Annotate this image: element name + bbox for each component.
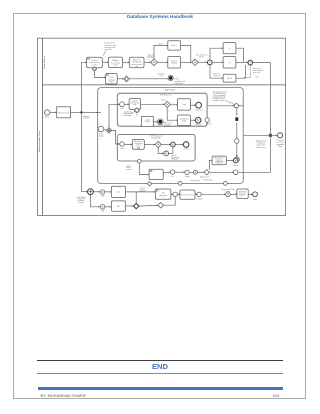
wire: gateway A down to box C2 [167, 108, 177, 120]
interior row circle X [194, 170, 198, 174]
bottom split label [77, 197, 86, 204]
junction X on channel [269, 134, 272, 137]
wire: junction down channel left [82, 114, 88, 192]
wire: subprocess entry continues [98, 111, 101, 113]
wire: box B2 to terminate A [153, 121, 157, 123]
svg-text:sent: sent [256, 75, 260, 78]
svg-text:Copy DB and: Copy DB and [77, 197, 86, 199]
svg-text:The sub-process are: The sub-process are [213, 90, 227, 93]
gateway G2 [192, 59, 198, 65]
wire: send task to diamond event [117, 78, 123, 80]
END text [0, 362, 320, 371]
svg-text:sent: sent [159, 75, 163, 78]
task X2 [111, 201, 125, 211]
wire: circle s1 to task X1 [105, 191, 111, 193]
svg-text:after go live: after go live [191, 179, 200, 182]
svg-text:Item 1: Item 1 [172, 44, 177, 47]
gateway G4 circle event [248, 60, 253, 65]
wire: subprocess right to end event right [243, 134, 277, 136]
pool outer rectangle [38, 38, 286, 215]
annotation text block right [213, 90, 227, 102]
loop label [171, 154, 180, 160]
wire: box C2 to end A2 [191, 119, 196, 121]
send task row2 [106, 74, 118, 85]
box B2 label [145, 119, 151, 123]
wire: plus bold down to circle s2 [90, 195, 100, 207]
end event container B [183, 142, 189, 148]
end event bottom row [253, 192, 258, 197]
wire: receive box to junction [71, 111, 80, 113]
wire: circle2 to circleX [189, 171, 193, 173]
boundary event on container A right edge [205, 118, 209, 122]
svg-text:Review: Review [145, 121, 151, 123]
interior upper event circle [233, 158, 238, 163]
wire: low stacked box up right [236, 65, 246, 78]
gateway G1 [151, 59, 158, 66]
svg-text:Sub Process: Sub Process [165, 89, 175, 91]
svg-text:Database Admin Team: Database Admin Team [38, 131, 41, 152]
wire: plus gateway up to container A [109, 104, 119, 127]
wire: gateway I to doc box [230, 193, 237, 195]
wire: icon box to circle t1 [171, 193, 173, 195]
svg-text:1: 1 [172, 103, 173, 105]
wire: plus gateway right to container B entry [112, 130, 120, 144]
svg-text:handling?: handling? [147, 57, 155, 59]
svg-text:Completed?: Completed? [151, 137, 161, 140]
interior upper box label [215, 157, 225, 165]
task box3 top lane [129, 57, 144, 67]
circle t1 [173, 192, 177, 196]
wire: dark diamond right to diamond H [139, 204, 158, 207]
gateway G3 bold circle [207, 60, 212, 65]
wire: item box2 to G2 [181, 61, 192, 63]
wire: doc box to end [248, 193, 252, 195]
svg-text:ready: ready [99, 136, 104, 138]
box low right stack [223, 74, 236, 82]
wire: right edge events column [236, 108, 238, 115]
wire: G3 up to box top [210, 48, 223, 59]
wire: loop event up to gateway F [169, 147, 173, 153]
box B2 container A [142, 116, 154, 126]
svg-text:2x attempt: 2x attempt [124, 110, 132, 113]
svg-text:ready: ready [226, 191, 231, 193]
svg-text:Sub Process 1: Sub Process 1 [160, 95, 172, 97]
wire: events column 2 [236, 123, 238, 139]
wire: interior bottom row [163, 171, 170, 174]
svg-text:Done: Done [253, 199, 257, 201]
wire: plus bold to circle s1 [93, 191, 100, 193]
wire: boundary B1 dashed [136, 113, 138, 117]
svg-text:retry 2: retry 2 [161, 99, 166, 102]
wire: dark diamond up to row [135, 192, 137, 204]
svg-text:labeled: labeled [171, 63, 177, 65]
wire: G2 to G3 [198, 61, 207, 63]
interior row dark event [171, 170, 174, 173]
box C2 container A [178, 115, 191, 126]
end event right column [234, 157, 239, 162]
end event A2 [195, 117, 201, 123]
svg-text:done: done [278, 146, 282, 148]
wire: start to receive box [50, 111, 57, 113]
bottom circle s2 [100, 205, 105, 210]
interior row gateway [204, 170, 209, 175]
wire: boundary event down to send task [95, 71, 106, 78]
svg-text:DB success: DB success [256, 147, 266, 149]
wire: G4 right then down channel [253, 63, 271, 173]
END rule bottom [37, 373, 283, 374]
interior row end circle [233, 170, 238, 175]
svg-text:switch done: switch done [203, 179, 213, 182]
svg-text:Send: Send [146, 119, 150, 121]
svg-text:1 week: 1 week [233, 165, 239, 167]
plus gateway subprocess [106, 128, 111, 133]
svg-text:Order Process: Order Process [43, 56, 46, 69]
doc box bottom row [237, 189, 248, 199]
terminate event container A [157, 119, 163, 125]
start event bottom lane [45, 110, 50, 115]
svg-text:Fix: Fix [171, 176, 173, 178]
svg-text:Start: Start [45, 116, 49, 119]
task box1 top lane [87, 57, 103, 67]
wire: gateway E loop down [158, 148, 163, 154]
wire: junction into subprocess [83, 111, 97, 113]
wire: boundary B1 dashed label line [131, 111, 135, 113]
wire: box Y to circle t2 [195, 193, 197, 195]
svg-text:Item 3: Item 3 [227, 77, 232, 80]
svg-text:Log: Log [183, 104, 186, 106]
wire: container B boundary down to icon box [139, 163, 149, 174]
wire: G4 dashed down left [244, 65, 251, 78]
task B1 label [130, 101, 139, 106]
svg-text:Verified: Verified [196, 198, 202, 200]
svg-text:2: 2 [169, 110, 170, 112]
svg-text:Final end: Final end [195, 124, 202, 126]
svg-text:send out: send out [213, 74, 220, 77]
start event subprocess [98, 126, 104, 132]
boundary B label [126, 165, 132, 170]
wire: into low stacked box [210, 66, 223, 79]
start event container B [120, 142, 124, 146]
wire: task X2 right to dark diamond [126, 205, 134, 207]
boundary event on box1 [93, 67, 97, 71]
wire: end circle to channel [238, 171, 270, 173]
event right column mid [235, 139, 239, 143]
wire: box C to end A [191, 104, 196, 106]
junction X bottom lane [80, 111, 83, 114]
wire: circle s2 to task X2 [105, 206, 111, 208]
svg-text:end and: end and [164, 124, 170, 126]
terminate event row2 [168, 75, 173, 80]
lane divider [42, 84, 285, 86]
interior row circle 2 [185, 170, 189, 174]
wire: start2 to plus gateway [104, 129, 107, 132]
wire: gateway A to box C [170, 104, 177, 106]
wire: junction up into top lane [82, 62, 87, 112]
receive box bottom lane [57, 107, 71, 118]
footer author [41, 393, 87, 398]
gateway I circle [226, 192, 231, 197]
footer page number [262, 393, 279, 398]
wire: gateway F to end B [175, 144, 183, 146]
svg-text:Item 1: Item 1 [159, 42, 164, 45]
annotation event right [234, 104, 238, 108]
task X1 [111, 186, 125, 197]
wire: box3 to gateway G1 [144, 61, 151, 63]
wire: item box1 right down to G2 [181, 45, 191, 62]
svg-text:2.5 day: 2.5 day [184, 149, 189, 151]
interior upper box [212, 156, 226, 165]
svg-text:1 day: 1 day [101, 196, 105, 198]
wire: gateway E to gateway F [161, 144, 170, 146]
boundary circle subprocess bottom [147, 182, 151, 186]
svg-text:run and: run and [140, 187, 145, 190]
wire: upper box to event circle [226, 159, 233, 161]
interior icon box [149, 169, 163, 179]
box mid right stack [223, 57, 236, 68]
loop event container B [164, 151, 169, 156]
boundary event B1 [135, 108, 139, 112]
svg-text:care and: care and [253, 72, 260, 74]
box C container A [178, 99, 191, 110]
footer blue bar [38, 387, 284, 390]
diamond event row2 [124, 76, 130, 82]
svg-text:2 day: 2 day [120, 148, 124, 150]
svg-text:DB process: DB process [164, 122, 172, 125]
END rule top [37, 360, 283, 361]
svg-text:Verify: Verify [185, 176, 190, 178]
svg-text:1 day: 1 day [101, 211, 105, 213]
wire: interior gateway long to circle [210, 171, 234, 173]
wire: circleX to gateway [198, 171, 204, 173]
svg-text:new DB: new DB [140, 191, 145, 193]
dark diamond join [134, 203, 139, 208]
heading: Database Systems Handbook [0, 15, 320, 20]
bottom circle s1 [100, 190, 105, 195]
svg-text:items?: items? [199, 56, 204, 59]
svg-text:1 week left: 1 week left [195, 108, 203, 111]
wire: box D to gateway E [144, 144, 155, 146]
svg-text:exists: exists [113, 64, 118, 67]
svg-text:a valid id: a valid id [104, 49, 111, 51]
svg-text:Receive Task: Receive Task [58, 112, 69, 114]
wire: B start to box D [124, 143, 132, 145]
wire: box top right down join [236, 48, 244, 62]
end event far right [278, 133, 283, 138]
bottom gateway plus bold [88, 189, 94, 195]
terminate A label [164, 122, 172, 128]
svg-text:Task (1): Task (1) [132, 101, 138, 103]
boundary event subprocess bottom 2 [178, 182, 182, 186]
boundary event container B bottom [137, 159, 141, 163]
box C2 label [180, 118, 188, 123]
go live circle label [140, 187, 145, 193]
wire: circle t2 long to gateway I [201, 193, 225, 195]
gateway F container B [171, 142, 176, 147]
wire: annotation to event dashed [226, 101, 234, 105]
svg-text:to the: to the [109, 81, 114, 84]
wire: events column 3 [236, 143, 238, 156]
svg-text:Go Live Process: Go Live Process [181, 194, 194, 196]
sub-process container [98, 88, 244, 184]
gateway E container B [155, 141, 161, 147]
wire: box1 to box2 [102, 61, 108, 63]
wire: diamond event to terminate [130, 78, 168, 80]
task B1 container A [129, 99, 141, 110]
wire: task B1 to gateway A [141, 103, 164, 105]
wire: task X1 right to icon box [126, 191, 156, 193]
wire: annotation diagonal top [103, 51, 106, 57]
wire: G1 up to item box 1 [154, 45, 168, 59]
wire: container A to annotation event [207, 105, 234, 107]
dark marker right column [235, 117, 238, 121]
wire: G1 right to item box 2 [157, 61, 167, 63]
inner container A [117, 93, 207, 126]
end event container A [196, 102, 202, 108]
item box 1 [168, 41, 181, 50]
wire: circle t1 to box Y [177, 193, 180, 195]
svg-text:undo the: undo the [171, 154, 177, 157]
wire: G3 right to box mid [213, 61, 223, 63]
svg-text:or after: or after [92, 63, 98, 66]
svg-text:Migration: Migration [83, 115, 90, 118]
svg-text:Migration: Migration [160, 194, 167, 197]
wire: box mid to G4 [236, 61, 248, 63]
wire: upper box left down to diamond [209, 160, 212, 169]
box Y bottom row [180, 190, 195, 199]
pool label band divider [41, 38, 43, 215]
svg-text:2x day: 2x day [126, 165, 131, 167]
item box 2 [168, 57, 181, 68]
box top right stack [223, 43, 236, 54]
svg-text:terminated: terminated [174, 82, 183, 85]
svg-text:Switch Over: Switch Over [200, 176, 210, 179]
wire: box2 to box3 [123, 61, 130, 63]
circle t2 [197, 192, 201, 196]
task box2 top lane [108, 57, 122, 67]
svg-text:1 day: 1 day [120, 108, 124, 110]
boundary event subprocess bottom 3 [224, 182, 228, 186]
box D label [134, 140, 143, 146]
wire: annotation event to subprocess edge [239, 105, 244, 107]
icon box bottom row [155, 189, 171, 199]
boundary B1 label [124, 110, 134, 116]
wire: A start to task B1 [125, 103, 129, 105]
diamond H [158, 202, 164, 208]
wire: interior row circles links [175, 171, 185, 173]
inner container B [117, 134, 195, 161]
box D container B [132, 139, 144, 149]
wire: diamond H up right [163, 197, 175, 206]
gateway A container A [164, 101, 170, 107]
start event container A [120, 102, 125, 107]
